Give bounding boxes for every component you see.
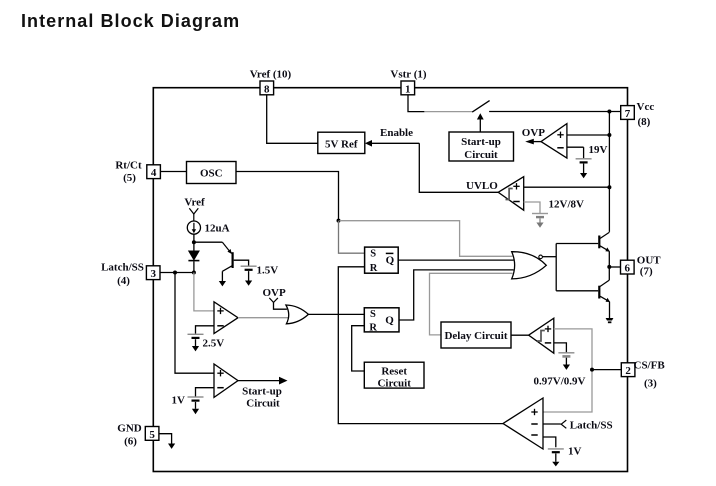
svg-text:OSC: OSC	[200, 168, 223, 180]
svg-text:CS/FB: CS/FB	[634, 359, 666, 371]
svg-text:4: 4	[151, 167, 157, 179]
svg-text:Enable: Enable	[380, 127, 413, 139]
wire OVP plus input	[567, 134, 610, 136]
wire UVLO plus input	[524, 186, 610, 188]
battery 19V	[576, 159, 592, 179]
wire out junction to pin6	[609, 266, 620, 268]
Enable arrow wire	[365, 140, 419, 147]
label Start-up Circuit signal	[242, 386, 282, 410]
svg-text:UVLO: UVLO	[466, 180, 498, 192]
svg-text:12V/8V: 12V/8V	[549, 199, 585, 211]
svg-text:(3): (3)	[644, 377, 657, 389]
svg-text:Latch/SS: Latch/SS	[101, 261, 144, 273]
wire 1V comp minus	[196, 388, 215, 397]
op-amp UVLO comparator U5	[498, 177, 524, 211]
pin 4 box	[147, 165, 161, 179]
svg-text:Vcc: Vcc	[637, 101, 655, 113]
svg-text:6: 6	[625, 263, 631, 275]
svg-text:OVP: OVP	[263, 287, 287, 299]
ground output stage	[606, 318, 614, 322]
Reset Circuit box U11	[364, 362, 424, 389]
wire delay to NOR input4	[430, 273, 513, 335]
Vref chevron	[189, 208, 198, 221]
NOR output bubble	[539, 255, 543, 259]
op-amp 0.97V comparator U14	[529, 318, 554, 353]
wire pin3 net	[160, 272, 194, 274]
svg-text:Reset: Reset	[381, 365, 407, 377]
start-up circuit output arrow to switch	[477, 113, 484, 132]
transistor Q3 bottom	[598, 267, 610, 318]
op-amp current sense comparator U15	[503, 398, 543, 449]
svg-text:Circuit: Circuit	[246, 398, 280, 410]
battery 0.97V/0.9V	[558, 353, 574, 370]
svg-text:Vstr (1): Vstr (1)	[390, 69, 426, 81]
junction pin3 b	[192, 271, 196, 275]
OVP chevron	[269, 298, 287, 309]
pin 6 box	[621, 260, 635, 274]
svg-text:(7): (7)	[640, 265, 653, 277]
svg-text:1: 1	[405, 83, 411, 95]
pin 2 box	[621, 363, 635, 377]
junction OSC branch	[337, 219, 341, 223]
svg-text:(8): (8)	[638, 116, 651, 128]
current source 12uA	[187, 221, 200, 234]
junction 12uA branch	[192, 240, 196, 244]
pin label Latch/SS (4)	[101, 261, 144, 287]
svg-text:Vref (10): Vref (10)	[250, 69, 292, 81]
svg-text:5V Ref: 5V Ref	[325, 138, 358, 150]
svg-text:7: 7	[625, 108, 631, 120]
svg-text:R: R	[370, 263, 378, 274]
Start-up Circuit box U2	[449, 132, 514, 161]
transistor Q2 top	[598, 232, 610, 267]
pin 8 box	[260, 81, 274, 95]
wire branch to Q1 emitter	[194, 242, 232, 254]
start-up signal arrow	[238, 377, 288, 385]
5V Ref box U3	[318, 132, 365, 153]
wire latch1 Qbar to NOR	[399, 259, 514, 261]
wire switch to pin7	[489, 111, 621, 113]
svg-text:1.5V: 1.5V	[257, 264, 279, 276]
ground GND pin	[168, 444, 175, 449]
junction Vcc rail top	[607, 110, 611, 114]
svg-text:OVP: OVP	[522, 127, 546, 139]
op-amp OVP comparator U4	[541, 124, 567, 159]
wire OSC to NOR input1	[340, 221, 513, 257]
svg-text:19V: 19V	[589, 144, 608, 156]
pin label Vstr (1)	[390, 69, 426, 81]
svg-text:Circuit: Circuit	[377, 377, 411, 389]
svg-text:Vref: Vref	[184, 197, 205, 209]
svg-text:Delay Circuit: Delay Circuit	[444, 330, 507, 342]
value label 19V	[589, 144, 608, 156]
wire source to diode	[193, 234, 195, 251]
value label 1V right	[568, 446, 582, 458]
svg-text:(5): (5)	[123, 172, 136, 184]
svg-text:Start-up: Start-up	[242, 386, 282, 398]
svg-text:Start-up: Start-up	[461, 136, 501, 148]
junction CS/FB	[590, 368, 594, 372]
pin label GND (6)	[117, 422, 142, 447]
value label 0.97V/0.9V	[534, 375, 586, 387]
Vcc rail	[608, 112, 610, 232]
pin label OUT (7)	[637, 254, 662, 277]
svg-text:S: S	[370, 249, 376, 260]
pin 5 box	[145, 427, 159, 441]
svg-text:8: 8	[264, 83, 270, 95]
value label 1.5V	[257, 264, 279, 276]
wire latch2 R to reset circuit	[352, 326, 365, 371]
net label Enable	[380, 127, 413, 139]
net label Latch/SS tag	[570, 420, 613, 432]
op-amp 1V comparator U8	[214, 364, 238, 397]
wire soft-start to comp plus	[194, 273, 214, 311]
pin label Vcc (8)	[637, 101, 655, 128]
svg-text:R: R	[369, 323, 377, 334]
junction pin3 a	[173, 271, 177, 275]
wire delay to comparator	[511, 334, 529, 336]
svg-text:Latch/SS: Latch/SS	[570, 420, 613, 432]
IC boundary box	[153, 88, 627, 472]
switch SW1 blade	[472, 101, 489, 113]
wire pin4 to OSC	[160, 171, 186, 173]
svg-text:S: S	[370, 309, 376, 320]
net label OVP bottom	[263, 287, 287, 299]
wire pin5 ground	[159, 434, 172, 444]
wire sense comp minus2	[543, 437, 556, 447]
svg-text:12uA: 12uA	[205, 223, 230, 235]
OR gate OVP	[286, 305, 309, 324]
wire OVP minus input	[567, 147, 584, 158]
wire 0.97 comp minus	[554, 343, 567, 352]
latch U10 S R Q	[364, 308, 399, 334]
pin 3 box	[146, 266, 160, 280]
wire comp output to OR gate	[238, 317, 291, 319]
junction OVP plus	[607, 133, 611, 137]
title	[21, 11, 240, 31]
wire latch/ss tag input	[543, 420, 566, 428]
svg-text:2: 2	[625, 365, 631, 377]
svg-text:1V: 1V	[568, 446, 582, 458]
OVP output arrow	[525, 139, 541, 145]
svg-text:Rt/Ct: Rt/Ct	[115, 159, 142, 171]
wire comp minus to 2.5V	[196, 326, 215, 334]
wire latch1 R input	[338, 267, 503, 424]
ground Q1 collector	[219, 281, 226, 286]
pin label Vref (10)	[250, 69, 292, 81]
value label 12V/8V	[549, 199, 585, 211]
pin 1 box	[401, 81, 415, 95]
wire UVLO minus input	[524, 202, 540, 213]
latch U9 S R Qbar	[365, 247, 399, 274]
wire latch2 Q to NOR	[399, 270, 514, 320]
label UVLO	[466, 180, 498, 192]
wire Q1 base to 1.5V	[234, 260, 249, 266]
battery 1V right	[548, 449, 564, 467]
battery 12V/8V	[532, 214, 548, 228]
svg-text:2.5V: 2.5V	[203, 338, 225, 350]
net label Vref	[184, 197, 205, 209]
NOR gate U12	[512, 252, 547, 279]
battery 1.5V	[241, 266, 257, 286]
value label 2.5V	[203, 338, 225, 350]
wire pin8 to 5V Ref	[267, 95, 318, 144]
junction emitter out	[607, 265, 611, 269]
value label 1V left	[172, 395, 186, 407]
pin label CS/FB (3)	[634, 359, 666, 389]
svg-text:3: 3	[150, 268, 156, 280]
wire pin1 stem	[408, 95, 424, 112]
battery 1V left	[188, 397, 204, 414]
wire 0.97 comp plus to CS line	[543, 329, 592, 412]
junction UVLO plus	[607, 185, 611, 189]
svg-text:Q: Q	[385, 315, 394, 327]
diode D1	[188, 251, 199, 273]
wire NOR output to driver	[542, 244, 598, 291]
svg-text:GND: GND	[117, 422, 142, 434]
wire pin3 to 1V comp plus	[175, 273, 214, 374]
Delay Circuit box U13	[441, 322, 511, 348]
transistor Q1	[222, 252, 233, 281]
svg-text:(6): (6)	[124, 435, 137, 447]
svg-text:Q: Q	[386, 255, 395, 267]
wire OSC to latch1 S	[339, 221, 366, 254]
wire CS junction to pin2	[592, 369, 621, 371]
svg-text:(4): (4)	[117, 275, 130, 287]
wire OSC output	[236, 172, 339, 221]
pin label Rt/Ct (5)	[115, 159, 142, 184]
value label 12uA	[205, 223, 230, 235]
battery 2.5V	[188, 334, 204, 351]
OSC box U6	[187, 162, 237, 184]
svg-text:Circuit: Circuit	[464, 149, 498, 161]
net label OVP top	[522, 127, 546, 139]
svg-text:1V: 1V	[172, 395, 186, 407]
op-amp 2.5V comparator U7	[214, 302, 238, 334]
svg-text:Internal Block Diagram: Internal Block Diagram	[21, 11, 240, 31]
wire Enable to UVLO output	[419, 143, 498, 192]
svg-text:0.97V/0.9V: 0.97V/0.9V	[534, 375, 586, 387]
wire OR output to latch2 S	[308, 313, 364, 315]
pin 7 box	[621, 106, 635, 120]
svg-text:5: 5	[149, 429, 155, 441]
switch SW1 gray segment	[424, 111, 472, 113]
